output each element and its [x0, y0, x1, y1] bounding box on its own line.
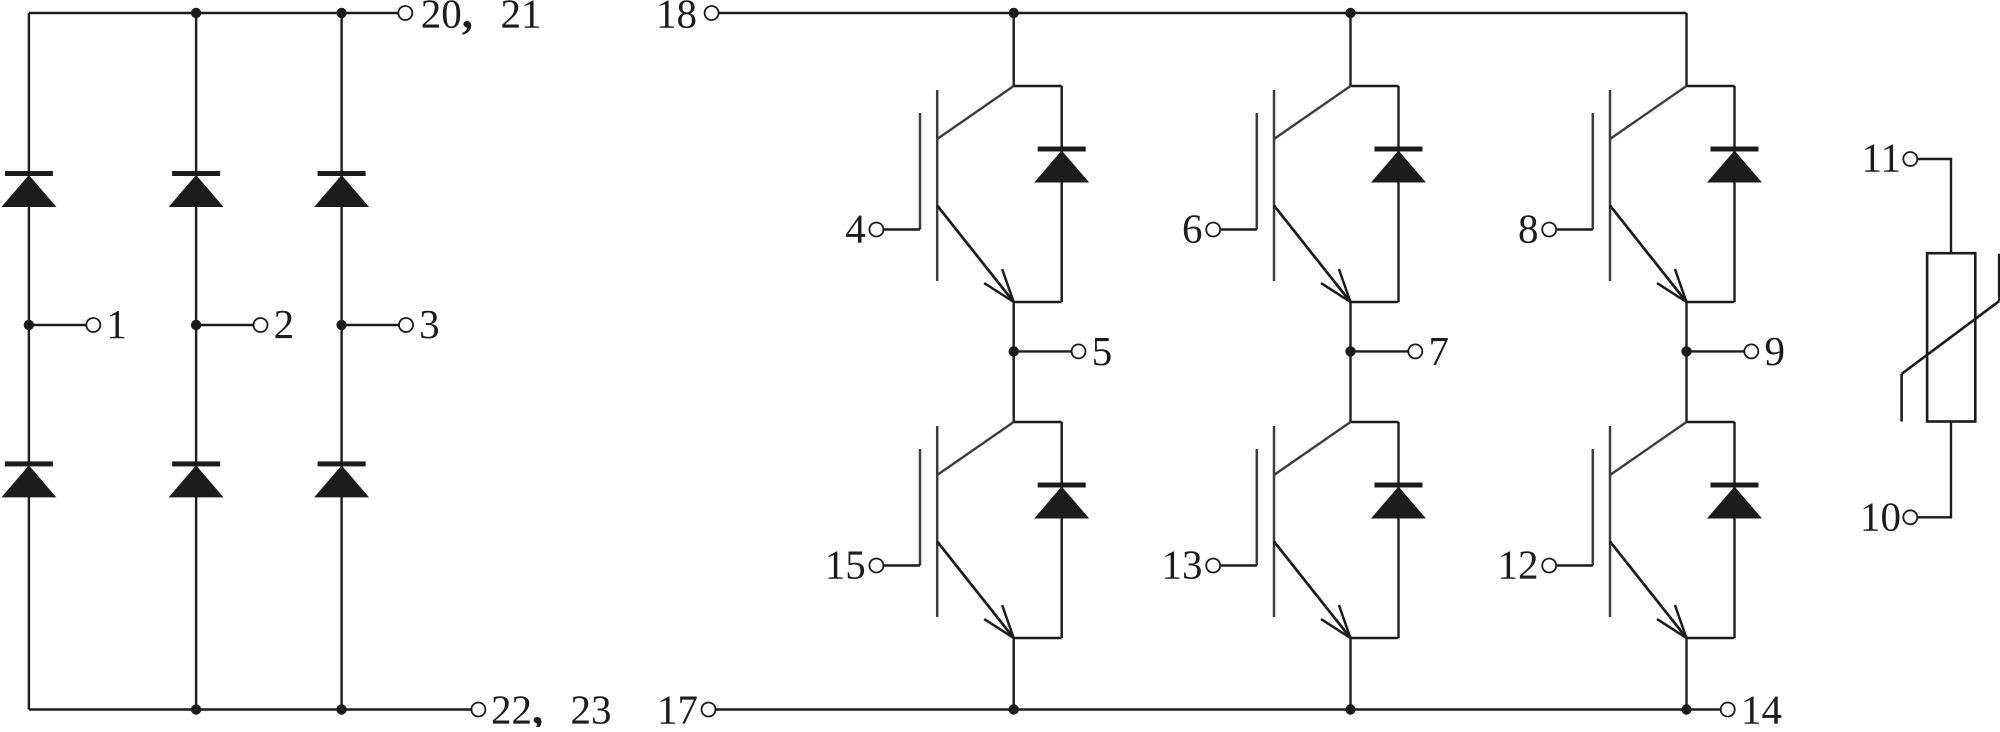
transistor Q4 emitter arrow barb 1 [984, 619, 1014, 638]
transistor Q6 collector diagonal [1610, 422, 1687, 475]
wire thermistor bottom lead [1917, 422, 1951, 518]
junction dot bottom rail inverter leg 1 [1009, 704, 1019, 714]
transistor Q1 gate bar [919, 113, 922, 230]
wire emitter drop leg 3 [1685, 638, 1687, 710]
junction dot bottom rail leg 2 [191, 704, 201, 714]
thermistor RT1 body [1927, 253, 1975, 421]
transistor Q1 channel bar [936, 90, 939, 281]
svg-text:14: 14 [1741, 687, 1782, 727]
terminal 3 [399, 318, 413, 332]
transistor Q1 emitter arrow barb 1 [984, 283, 1014, 302]
wire gate lead of Q4 [883, 564, 920, 566]
svg-text:13: 13 [1162, 542, 1203, 588]
transistor Q6 collector corner wire [1687, 421, 1735, 423]
junction dot bottom rail leg 3 [336, 704, 346, 714]
diode D8 (anti-parallel) [1375, 147, 1423, 152]
transistor Q5 collector diagonal [1274, 422, 1351, 475]
diode D3 (upper, leg 3) [318, 171, 366, 176]
wire gate lead of Q6 [1556, 564, 1593, 566]
transistor Q2 emitter corner wire [1351, 301, 1399, 303]
diode D7 (anti-parallel) [1038, 147, 1086, 152]
node AC phase 2 junction dot [191, 320, 201, 330]
svg-text:7: 7 [1429, 328, 1450, 374]
transistor Q6 gate bar [1592, 449, 1595, 566]
transistor Q4 emitter corner wire [1014, 637, 1062, 639]
transistor Q4 collector diagonal [937, 422, 1014, 475]
transistor Q4 emitter arrow barb 2 [1002, 605, 1014, 638]
diode D11 (anti-parallel) [1375, 483, 1423, 488]
node AC phase 3 junction dot [336, 320, 346, 330]
terminal 14 [1721, 703, 1735, 717]
transistor Q2 collector diagonal [1274, 86, 1351, 139]
wire collector drop leg 2 [1349, 13, 1351, 86]
transistor Q6 emitter corner wire [1687, 637, 1735, 639]
transistor Q4 channel bar [936, 426, 939, 617]
transistor Q1 emitter corner wire [1014, 301, 1062, 303]
terminal 17 [702, 703, 716, 717]
diode D6 (lower, leg 3) [318, 461, 366, 466]
wire anti-parallel diode branch of Q2 [1397, 86, 1399, 302]
svg-text:15: 15 [825, 542, 866, 588]
wire top DC+ rail of rectifier [29, 12, 398, 14]
svg-text:17: 17 [657, 687, 698, 727]
transistor Q3 collector diagonal [1610, 86, 1687, 139]
transistor Q6 emitter arrow barb 2 [1675, 605, 1687, 638]
terminal 9 [1744, 344, 1758, 358]
diode D10 (anti-parallel) [1038, 483, 1086, 488]
junction dot bottom rail inverter leg 2 [1345, 704, 1355, 714]
transistor Q4 gate bar [919, 449, 922, 566]
transistor Q2 emitter arrow barb 1 [1321, 283, 1351, 302]
svg-text:18: 18 [656, 0, 697, 37]
terminal 20/21 [398, 6, 412, 20]
terminal 15 (gate of Q4) [869, 559, 883, 573]
transistor Q5 channel bar [1273, 426, 1276, 617]
terminal 7 [1408, 344, 1422, 358]
wire top DC+ rail of inverter [719, 12, 1687, 14]
transistor Q3 emitter arrow barb 2 [1675, 269, 1687, 302]
junction dot top rail inverter leg 1 [1009, 8, 1019, 18]
transistor Q6 channel bar [1609, 426, 1612, 617]
transistor Q5 emitter corner wire [1351, 637, 1399, 639]
wire anti-parallel diode branch of Q3 [1733, 86, 1735, 302]
terminal 11 [1903, 152, 1917, 166]
terminal 2 [254, 318, 268, 332]
svg-text:4: 4 [845, 206, 866, 252]
transistor Q6 emitter arrow barb 1 [1657, 619, 1687, 638]
thermistor RT1 diagonal upper tail [1998, 254, 2000, 301]
svg-text:12: 12 [1498, 542, 1539, 588]
transistor Q4 collector corner wire [1014, 421, 1062, 423]
terminal 5 [1072, 344, 1086, 358]
transistor Q2 gate bar [1256, 113, 1259, 230]
wire gate lead of Q2 [1220, 228, 1257, 230]
transistor Q5 gate bar [1256, 449, 1259, 566]
terminal 1 [86, 318, 100, 332]
wire emitter drop leg 2 [1349, 638, 1351, 710]
wire gate lead of Q5 [1220, 564, 1257, 566]
terminal 10 [1903, 510, 1917, 524]
transistor Q1 emitter arrow barb 2 [1002, 269, 1014, 302]
wire phase output leg 2 [1349, 302, 1351, 422]
terminal 6 (gate of Q2) [1206, 223, 1220, 237]
wire AC phase 3 lead [342, 324, 400, 326]
thermistor RT1 diagonal lower tail [1900, 374, 1903, 422]
svg-text:2: 2 [274, 301, 295, 347]
transistor Q2 collector corner wire [1351, 85, 1399, 87]
wire phase output leg 1 [1013, 302, 1015, 422]
transistor Q3 emitter corner wire [1687, 301, 1735, 303]
wire thermistor top lead [1917, 159, 1951, 253]
diode D2 (upper, leg 2) [172, 171, 220, 176]
transistor Q4 emitter diagonal [937, 542, 1014, 639]
wire AC phase 2 lead [196, 324, 254, 326]
junction dot bottom rail inverter leg 3 [1681, 704, 1691, 714]
transistor Q5 collector corner wire [1351, 421, 1399, 423]
svg-text:1: 1 [106, 301, 127, 347]
transistor Q5 emitter arrow barb 2 [1339, 605, 1351, 638]
svg-text:10: 10 [1860, 494, 1901, 540]
terminal 4 (gate of Q1) [869, 223, 883, 237]
transistor Q5 emitter arrow barb 1 [1321, 619, 1351, 638]
node output 9 junction dot [1681, 346, 1691, 356]
diode D4 (lower, leg 1) [5, 461, 53, 466]
wire rectifier leg 1 vertical [28, 13, 30, 710]
node AC phase 1 junction dot [24, 320, 34, 330]
wire output lead 9 [1687, 350, 1745, 352]
wire anti-parallel diode branch of Q4 [1060, 422, 1062, 638]
transistor Q3 collector corner wire [1687, 85, 1735, 87]
junction dot top rail inverter leg 2 [1345, 8, 1355, 18]
transistor Q5 emitter diagonal [1274, 542, 1351, 639]
wire bottom DC- rail of inverter [716, 708, 1721, 710]
transistor Q2 emitter arrow barb 2 [1339, 269, 1351, 302]
transistor Q3 emitter arrow barb 1 [1657, 283, 1687, 302]
diode D5 (lower, leg 2) [172, 461, 220, 466]
junction dot top rail leg 2 [191, 8, 201, 18]
wire collector drop leg 1 [1013, 13, 1015, 86]
transistor Q3 channel bar [1609, 90, 1612, 281]
svg-text:5: 5 [1092, 328, 1113, 374]
terminal 22/23 [471, 703, 485, 717]
svg-text:8: 8 [1518, 206, 1539, 252]
wire output lead 7 [1351, 350, 1409, 352]
wire rectifier leg 3 vertical [340, 13, 342, 710]
thermistor RT1 diagonal stroke [1902, 301, 2000, 374]
transistor Q6 emitter diagonal [1610, 542, 1687, 639]
svg-text:11: 11 [1862, 135, 1901, 181]
wire collector drop leg 3 [1685, 13, 1687, 86]
diode D1 (upper, leg 1) [5, 171, 53, 176]
wire emitter drop leg 1 [1013, 638, 1015, 710]
wire anti-parallel diode branch of Q1 [1060, 86, 1062, 302]
wire anti-parallel diode branch of Q6 [1733, 422, 1735, 638]
transistor Q3 emitter diagonal [1610, 206, 1687, 303]
wire AC phase 1 lead [29, 324, 87, 326]
node output 5 junction dot [1009, 346, 1019, 356]
transistor Q1 collector corner wire [1014, 85, 1062, 87]
junction dot top rail leg 3 [336, 8, 346, 18]
terminal 13 (gate of Q5) [1206, 559, 1220, 573]
diode D12 (anti-parallel) [1711, 483, 1759, 488]
transistor Q2 emitter diagonal [1274, 206, 1351, 303]
node output 7 junction dot [1345, 346, 1355, 356]
diode D9 (anti-parallel) [1711, 147, 1759, 152]
transistor Q1 collector diagonal [937, 86, 1014, 139]
transistor Q3 gate bar [1592, 113, 1595, 230]
terminal 12 (gate of Q6) [1542, 559, 1556, 573]
svg-text:3: 3 [419, 301, 440, 347]
wire gate lead of Q3 [1556, 228, 1593, 230]
wire rectifier leg 2 vertical [195, 13, 197, 710]
transistor Q2 channel bar [1273, 90, 1276, 281]
svg-text:9: 9 [1765, 328, 1786, 374]
wire anti-parallel diode branch of Q5 [1397, 422, 1399, 638]
wire gate lead of Q1 [883, 228, 920, 230]
wire output lead 5 [1014, 350, 1072, 352]
transistor Q1 emitter diagonal [937, 206, 1014, 303]
terminal 8 (gate of Q3) [1542, 223, 1556, 237]
terminal 18 [705, 6, 719, 20]
wire bottom DC- rail of rectifier [29, 708, 471, 710]
wire phase output leg 3 [1685, 302, 1687, 422]
svg-text:6: 6 [1182, 206, 1203, 252]
